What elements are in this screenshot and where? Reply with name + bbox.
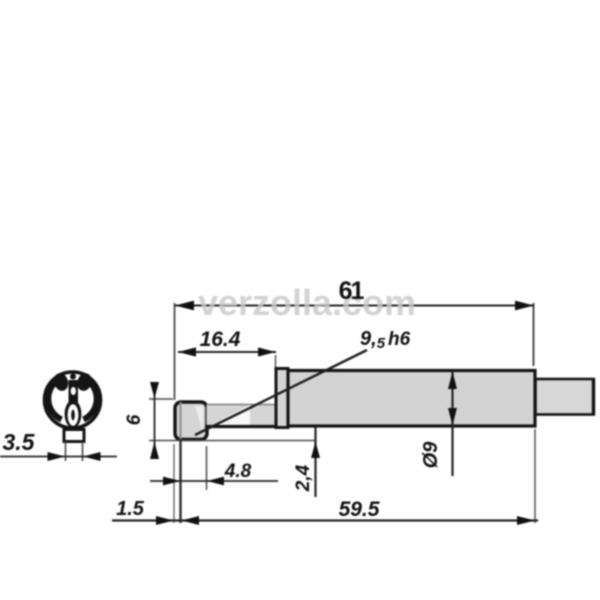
end stub [536, 379, 594, 415]
stem top edge [207, 404, 278, 406]
extension line right at body end (bottom) [534, 429, 536, 523]
blade tip (side view) [175, 402, 207, 440]
svg-text:verzolla.com: verzolla.com [198, 282, 416, 323]
dimension 16.4 extension line right [275, 355, 277, 369]
front view: right eye lobe [75, 371, 94, 392]
svg-text:1.5: 1.5 [116, 498, 145, 520]
dimension 16.4 line [178, 351, 276, 353]
dimension 2.4 arrow [311, 442, 320, 459]
stem cone recess (white wedge) [211, 405, 250, 426]
stem bottom edge [205, 425, 278, 428]
dimension 4.8 arrow left [163, 477, 181, 486]
front view: lower white oval [68, 404, 79, 426]
stem cylinder [207, 404, 278, 427]
dimension 4.8 line [150, 480, 278, 482]
front view: left inner arc [48, 383, 61, 420]
front view: top center dot [70, 374, 76, 380]
dimension 61 arrow left [175, 301, 194, 311]
front view: neck [64, 430, 84, 442]
dimension 61 arrow right [515, 301, 534, 311]
dimension 3.5 extension line left [65, 442, 67, 461]
svg-text:59.5: 59.5 [339, 498, 380, 521]
dimension 59.5 arrow right [517, 516, 535, 525]
dimension 16.4 arrow left [178, 347, 196, 356]
dimension 4.8 extension line right [206, 446, 208, 490]
svg-text:61: 61 [339, 277, 365, 305]
dimension 3.5 arrow right [83, 452, 101, 461]
front view: right inner arc [84, 383, 97, 420]
dimension 3.5 extension line right [82, 442, 84, 461]
dimension diameter 9 arrow bottom [448, 408, 457, 426]
dimension 2.4 line [314, 427, 316, 497]
dimension diameter 9 line [451, 371, 453, 476]
svg-text:16.4: 16.4 [200, 328, 241, 351]
front view: center dark band [69, 380, 79, 404]
dimension 6 / 2.4 shared extension line bottom [149, 440, 316, 442]
svg-text:Ø9: Ø9 [420, 441, 442, 469]
svg-text:4.8: 4.8 [224, 461, 252, 482]
svg-text:3.5: 3.5 [3, 429, 36, 455]
end stub face [592, 378, 595, 416]
collar [276, 369, 288, 428]
dimension 3.5 arrow left [48, 452, 66, 461]
dimension 6 line [154, 382, 156, 459]
extension line at blade flat (x=181) [180, 402, 182, 439]
dimension diameter 9 arrow top [448, 372, 457, 390]
dimension 3.5 line [0, 456, 117, 458]
dimension 59.5 arrow left [182, 516, 200, 525]
front view: outer circle [45, 372, 101, 428]
extension line at blade front (x=174) [173, 444, 175, 523]
dimension 1.5 arrow (outside left) [156, 516, 174, 525]
front view: left eye lobe [52, 371, 71, 392]
leader line to blade edge [195, 350, 367, 435]
svg-text:2,4: 2,4 [293, 464, 314, 492]
dimension 61 extension line right [533, 303, 535, 366]
bottom dimension line (1.5 / 59.5) [112, 519, 538, 521]
dimension 61 line [175, 305, 534, 307]
dimension 61 extension line left [174, 303, 176, 400]
dimension 6 arrow top [150, 382, 159, 399]
dimension 16.4 arrow right [258, 347, 276, 356]
dimension 4.8 arrow right [207, 477, 224, 486]
front view: lower slit [71, 410, 75, 421]
front view: center white spot [71, 387, 76, 395]
front view: lower dark ring [65, 400, 82, 428]
body cylinder [288, 371, 535, 427]
svg-text:6: 6 [124, 414, 145, 425]
dimension 6 extension line top [149, 398, 173, 400]
dimension 6 arrow bottom [150, 442, 159, 460]
blade tip chamfer highlight [195, 406, 203, 432]
